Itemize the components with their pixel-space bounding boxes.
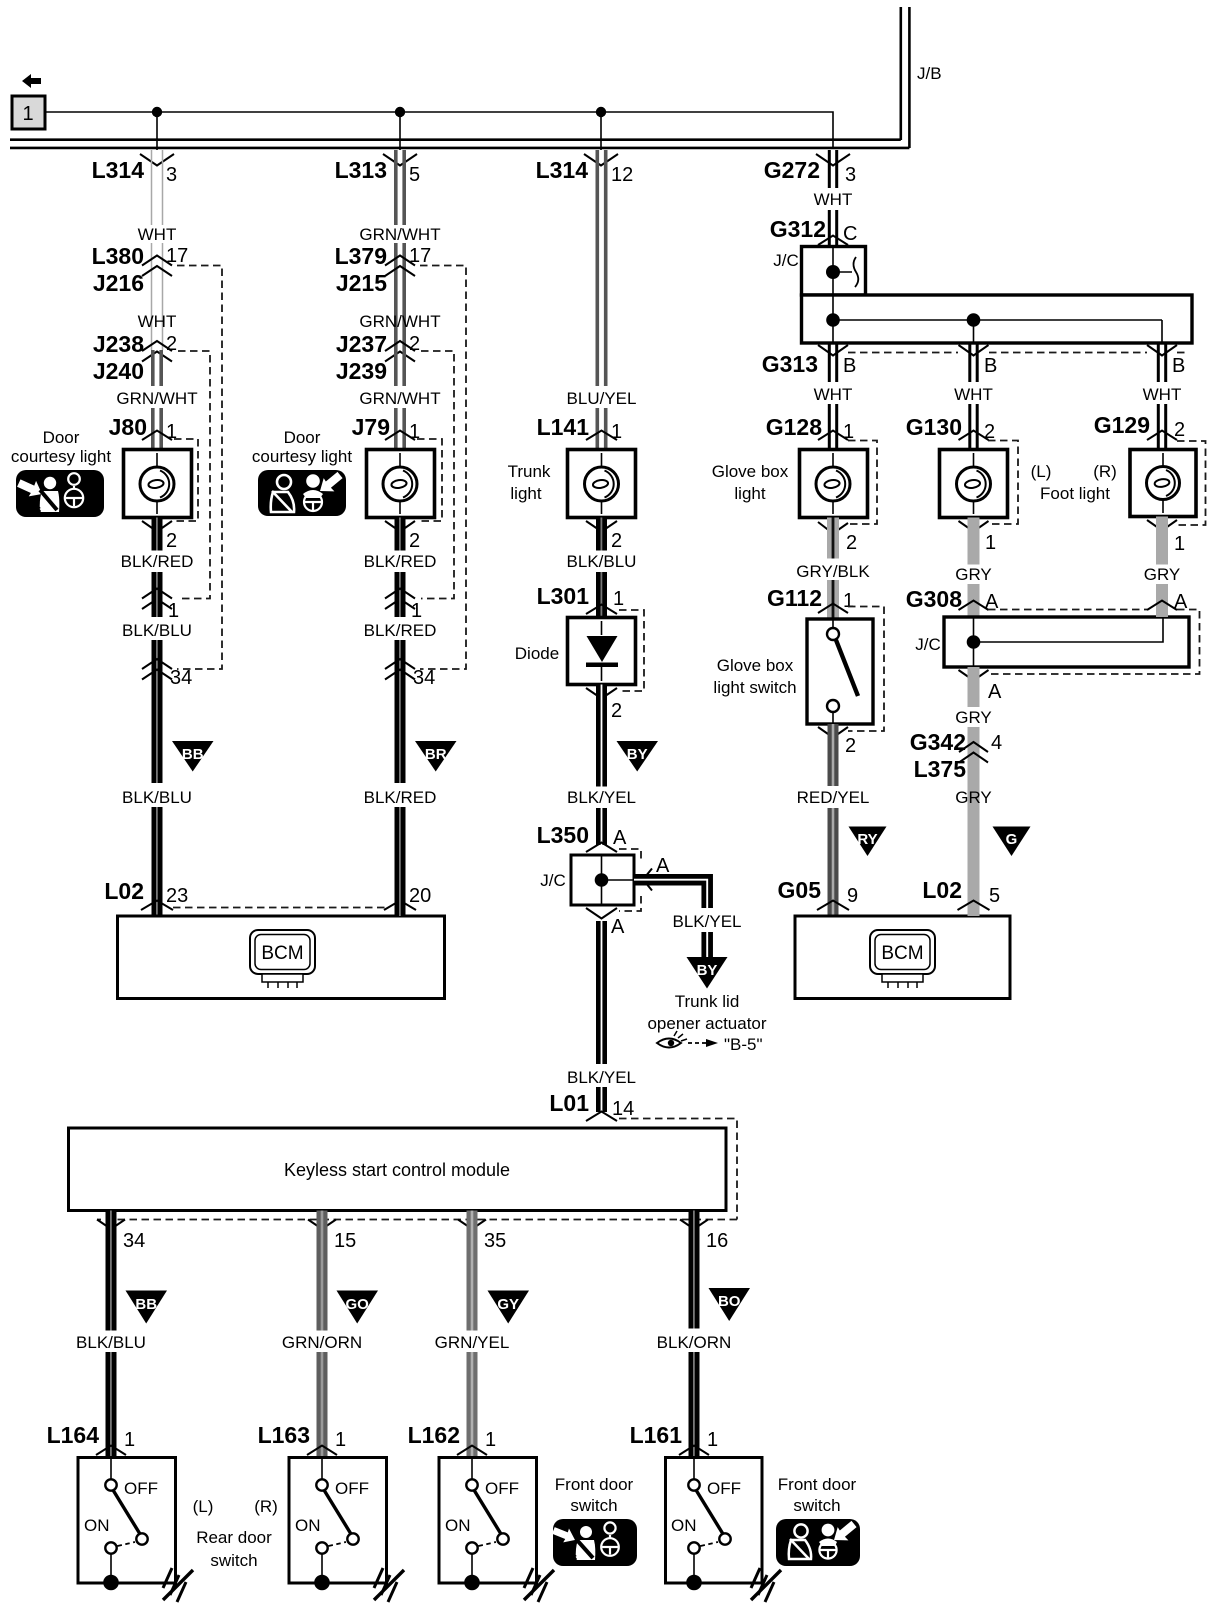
- wire GRY col5 upper: [968, 518, 980, 618]
- label (L) foot light: [1031, 462, 1052, 481]
- label Glove box light switch: [713, 656, 796, 697]
- wire dashed connector frame G313: [848, 352, 1186, 354]
- svg-text:WHT: WHT: [138, 225, 177, 244]
- wire dashed frame col1 mid J238-1: [178, 351, 210, 599]
- label WHT col6: [1143, 385, 1182, 404]
- wire BLK/ORN keyless pin16: [689, 1211, 700, 1458]
- connector G130 pin 2: [906, 414, 995, 443]
- wire GRY col5 mid: [968, 667, 980, 785]
- svg-text:2: 2: [166, 333, 177, 355]
- svg-text:G308: G308: [906, 586, 962, 612]
- wire BLK/BLU keyless pin34: [106, 1211, 117, 1458]
- svg-text:16: 16: [706, 1230, 728, 1252]
- connector pin 34 keyless module: [97, 1220, 145, 1253]
- destination triangle BY branch: [687, 957, 728, 989]
- wire WHT col4 lower: [829, 343, 836, 450]
- label GRY/BLK col4: [796, 562, 870, 581]
- svg-text:L02: L02: [922, 877, 962, 903]
- connector L141 pin 1: [537, 414, 623, 443]
- connector G272 pin 3: [764, 154, 856, 186]
- connector G342/L375 pin 4: [910, 729, 1002, 782]
- svg-text:L163: L163: [258, 1422, 310, 1448]
- svg-text:A: A: [611, 916, 625, 938]
- connector pin 16 keyless module: [680, 1220, 728, 1253]
- svg-text:ON: ON: [445, 1516, 471, 1535]
- wire WHT col1 upper: [152, 150, 163, 350]
- svg-text:GRN/WHT: GRN/WHT: [359, 225, 440, 244]
- wire dashed frame G112 pins: [848, 607, 884, 732]
- label front door switch driver: [778, 1475, 857, 1515]
- wire BLK/BLU col1 mid: [152, 595, 163, 783]
- diode L301: [568, 618, 636, 685]
- svg-text:Dr: Dr: [328, 502, 342, 516]
- svg-text:"B-5": "B-5": [724, 1035, 763, 1054]
- ground symbol L163: [374, 1568, 404, 1602]
- label BLK/RED col2 mid: [364, 552, 437, 571]
- connector G313 pin B col4: [762, 345, 857, 377]
- label Glove box light: [712, 462, 789, 503]
- svg-text:GY: GY: [497, 1296, 519, 1313]
- label BLK/RED col1: [121, 552, 194, 571]
- label GRN/WHT col1: [116, 389, 197, 408]
- label BLK/RED col2 lower: [364, 788, 437, 807]
- svg-text:5: 5: [989, 885, 1000, 907]
- box BCM left: [118, 916, 445, 999]
- svg-text:ON: ON: [671, 1516, 697, 1535]
- label WHT col4 row2: [814, 385, 853, 404]
- lamp L141 trunk light: [568, 450, 636, 518]
- svg-text:GRN/WHT: GRN/WHT: [116, 389, 197, 408]
- svg-text:BLK/YEL: BLK/YEL: [673, 912, 742, 931]
- wire BLK/RED col2 lower2: [395, 807, 406, 916]
- svg-text:light switch: light switch: [713, 678, 796, 697]
- svg-text:17: 17: [409, 245, 431, 267]
- svg-text:GRY: GRY: [955, 788, 992, 807]
- connector L380/J216 pin 17: [92, 243, 189, 296]
- connector L164 pin 1: [47, 1422, 136, 1455]
- connector L02 pin 5: [922, 877, 1000, 910]
- wire GRN/WHT col1: [153, 350, 161, 450]
- ground symbol L164: [163, 1568, 193, 1602]
- svg-text:J238: J238: [93, 331, 144, 357]
- svg-text:BLU/YEL: BLU/YEL: [567, 389, 637, 408]
- wire dashed frame G129 pins: [1177, 441, 1206, 525]
- svg-text:courtesy light: courtesy light: [252, 447, 352, 466]
- wire GRY col6: [1156, 517, 1168, 618]
- label GRN/WHT col2 row2: [359, 312, 440, 331]
- svg-text:WHT: WHT: [814, 190, 853, 209]
- svg-text:(L): (L): [1031, 462, 1052, 481]
- svg-text:L380: L380: [92, 243, 144, 269]
- wire dashed frame L301 pins: [619, 610, 644, 691]
- connector J238/J240 pin 2: [93, 331, 177, 384]
- connector L301 pin 2: [586, 688, 622, 722]
- destination triangle GY bottom: [488, 1291, 530, 1324]
- junction block G308 J/C: [944, 617, 1189, 667]
- connector L350 pin A branch: [643, 855, 670, 891]
- svg-text:G342: G342: [910, 729, 966, 755]
- svg-text:L01: L01: [549, 1090, 589, 1116]
- svg-text:2: 2: [409, 333, 420, 355]
- label rear door switch: [193, 1497, 278, 1570]
- svg-text:3: 3: [845, 164, 856, 186]
- svg-text:34: 34: [170, 667, 192, 689]
- lamp G130 left foot light: [940, 450, 1008, 518]
- svg-text:switch: switch: [210, 1551, 257, 1570]
- svg-text:C: C: [843, 223, 857, 245]
- svg-text:35: 35: [484, 1230, 506, 1252]
- svg-text:Foot light: Foot light: [1040, 484, 1110, 503]
- svg-text:4: 4: [991, 732, 1002, 754]
- wire GRY/BLK col4: [827, 518, 839, 621]
- box keyless start control module: [69, 1128, 727, 1211]
- connector G128 pin 2: [818, 522, 857, 554]
- connector J80 pin 1: [109, 414, 178, 443]
- connector inline pin 1 col1: [142, 589, 179, 623]
- svg-text:17: 17: [166, 245, 188, 267]
- svg-text:BB: BB: [182, 746, 204, 763]
- svg-text:G272: G272: [764, 157, 820, 183]
- svg-text:2: 2: [611, 530, 622, 552]
- svg-text:9: 9: [847, 885, 858, 907]
- connector inline pin 34 col2: [385, 659, 435, 689]
- connector J237/J239 pin 2: [336, 331, 420, 384]
- svg-text:light: light: [734, 484, 765, 503]
- svg-text:B: B: [1172, 355, 1185, 377]
- lamp J80 door courtesy light: [124, 450, 192, 518]
- label J/C G308: [915, 635, 941, 654]
- wire thin bus from connector 1: [45, 112, 833, 149]
- label BLK/BLU bottom: [76, 1333, 146, 1352]
- label J/C L350: [540, 871, 566, 890]
- label GRN/ORN bottom: [282, 1333, 362, 1352]
- svg-text:B: B: [984, 355, 997, 377]
- wire dashed frame col1 J80 pins: [174, 439, 198, 521]
- label GRY col6: [1144, 565, 1181, 584]
- svg-text:G130: G130: [906, 414, 962, 440]
- svg-text:15: 15: [334, 1230, 356, 1252]
- label BLK/YEL col3 upper: [567, 788, 636, 807]
- svg-text:GRY/BLK: GRY/BLK: [796, 562, 870, 581]
- svg-text:J79: J79: [352, 414, 390, 440]
- connector L350 pin A bottom: [586, 908, 625, 938]
- svg-text:L164: L164: [47, 1422, 100, 1448]
- label BLK/BLU col1 lower: [122, 788, 192, 807]
- svg-text:Door: Door: [43, 428, 80, 447]
- svg-text:1: 1: [124, 1429, 135, 1451]
- connector L313 pin 5: [335, 154, 421, 186]
- svg-text:J240: J240: [93, 358, 144, 384]
- svg-text:G: G: [1006, 831, 1018, 848]
- switch L163 right rear door switch: [289, 1457, 387, 1590]
- svg-text:14: 14: [612, 1098, 634, 1120]
- svg-text:L141: L141: [537, 414, 590, 440]
- label (R) foot light: [1093, 462, 1117, 481]
- svg-text:1: 1: [613, 588, 624, 610]
- wire BLK/BLU col3: [596, 518, 607, 618]
- label Trunk lid opener actuator: [647, 992, 766, 1033]
- svg-text:light: light: [510, 484, 541, 503]
- connector G313 pin B col6: [1147, 345, 1185, 377]
- wire BLK/RED col1: [152, 518, 163, 596]
- label BLK/BLU col3: [567, 552, 637, 571]
- svg-text:Pas: Pas: [556, 1550, 578, 1564]
- svg-text:BR: BR: [425, 746, 447, 763]
- box BCM right: [795, 916, 1010, 999]
- svg-text:G129: G129: [1094, 412, 1150, 438]
- connector G308 pin A col6: [1147, 591, 1188, 613]
- svg-text:L314: L314: [536, 157, 589, 183]
- wire dashed frame col2 outer L379-34: [420, 266, 466, 670]
- label WHT col5: [954, 385, 993, 404]
- label BLK/BLU col1 mid: [122, 621, 192, 640]
- icon eye with reference B-5: [657, 1031, 763, 1054]
- svg-text:GRN/YEL: GRN/YEL: [435, 1333, 510, 1352]
- svg-text:B: B: [843, 355, 856, 377]
- switch L162 passenger front door switch: [439, 1457, 537, 1590]
- connector L379/J215 pin 17: [335, 243, 432, 296]
- connector G05 pin 9: [778, 877, 859, 910]
- svg-text:OFF: OFF: [124, 1479, 158, 1498]
- svg-text:RED/YEL: RED/YEL: [797, 788, 870, 807]
- switch G112 glove box light switch: [807, 619, 873, 724]
- connector J80 pin 2: [142, 521, 177, 552]
- label WHT col1 row1: [138, 225, 177, 244]
- svg-text:J239: J239: [336, 358, 387, 384]
- wire dashed frame col1 outer L380-34: [177, 266, 222, 670]
- connector L314 pin 3: [92, 154, 178, 186]
- BCM right logo: [870, 930, 935, 988]
- svg-text:2: 2: [846, 532, 857, 554]
- svg-text:20: 20: [409, 885, 431, 907]
- destination triangle BB bottom: [126, 1291, 168, 1324]
- svg-text:BLK/BLU: BLK/BLU: [76, 1333, 146, 1352]
- connector L02 pin 23: [104, 878, 188, 910]
- wire dashed frame col2 J79 pins: [417, 439, 442, 521]
- wire GRN/WHT col2 upper: [396, 150, 404, 350]
- svg-text:WHT: WHT: [954, 385, 993, 404]
- label GRN/WHT col2 row1: [359, 225, 440, 244]
- svg-text:12: 12: [611, 164, 633, 186]
- label BLK/YEL branch: [673, 912, 742, 931]
- svg-text:2: 2: [166, 530, 177, 552]
- switch L164 left rear door switch: [78, 1457, 176, 1590]
- destination triangle BY col3: [617, 741, 659, 772]
- wire GRN/WHT col2 lower: [396, 350, 404, 450]
- wire dashed connector frame L02 left BCM: [173, 907, 388, 909]
- svg-text:BLK/YEL: BLK/YEL: [567, 1068, 636, 1087]
- connector inline pin 1 col2: [385, 589, 422, 623]
- svg-text:RY: RY: [857, 831, 877, 848]
- svg-text:ON: ON: [295, 1516, 321, 1535]
- svg-text:23: 23: [166, 885, 188, 907]
- connector L301 pin 1: [537, 583, 625, 614]
- svg-text:WHT: WHT: [814, 385, 853, 404]
- wire GRN/ORN keyless pin15: [317, 1211, 328, 1458]
- wire dashed frame L350 pins: [619, 849, 641, 911]
- connector L161 pin 1: [630, 1422, 719, 1455]
- svg-text:1: 1: [168, 600, 179, 622]
- svg-text:BCM: BCM: [261, 943, 303, 964]
- arrow to sheet 1: [22, 74, 41, 88]
- svg-text:A: A: [1174, 591, 1188, 613]
- svg-text:Keyless start control module: Keyless start control module: [284, 1160, 510, 1180]
- svg-text:1: 1: [611, 421, 622, 443]
- svg-text:1: 1: [335, 1429, 346, 1451]
- svg-text:2: 2: [1174, 419, 1185, 441]
- svg-text:BLK/BLU: BLK/BLU: [567, 552, 637, 571]
- connector pin 15 keyless module: [308, 1220, 356, 1253]
- svg-text:L162: L162: [408, 1422, 460, 1448]
- node junction dot L314-12 tap: [596, 107, 606, 150]
- off-page connector box 1: [12, 96, 45, 129]
- svg-text:A: A: [613, 827, 627, 849]
- svg-text:1: 1: [985, 532, 996, 554]
- connector G308 pin A col5: [906, 586, 999, 613]
- svg-text:L350: L350: [537, 822, 589, 848]
- svg-text:L375: L375: [914, 756, 967, 782]
- wire RED/YEL col4: [828, 724, 839, 916]
- node junction dot L313 tap: [395, 107, 405, 150]
- label J/B: [917, 64, 942, 83]
- svg-text:J215: J215: [336, 270, 387, 296]
- svg-text:L313: L313: [335, 157, 387, 183]
- destination triangle BO bottom: [709, 1288, 751, 1321]
- wire WHT col6: [1158, 343, 1165, 450]
- label BLU/YEL col3: [567, 389, 637, 408]
- svg-text:J/C: J/C: [915, 635, 941, 654]
- wire dashed frame keyless module connector: [97, 1119, 737, 1220]
- connector L141 pin 2: [586, 521, 622, 552]
- wire BLK/RED col2 mid: [395, 518, 406, 596]
- label Foot light: [1040, 484, 1110, 503]
- svg-text:Pas: Pas: [20, 502, 42, 516]
- label front door switch passenger: [555, 1475, 634, 1515]
- destination triangle BR col2: [415, 741, 457, 772]
- svg-text:3: 3: [166, 164, 177, 186]
- wire BLK/YEL branch to trunk lid actuator: [634, 880, 755, 957]
- label Trunk light: [508, 462, 551, 503]
- svg-text:BLK/ORN: BLK/ORN: [657, 1333, 732, 1352]
- svg-text:switch: switch: [570, 1496, 617, 1515]
- svg-text:L379: L379: [335, 243, 387, 269]
- svg-text:Rear door: Rear door: [196, 1528, 272, 1547]
- svg-text:WHT: WHT: [1143, 385, 1182, 404]
- svg-text:OFF: OFF: [335, 1479, 369, 1498]
- connector L02 pin 20: [384, 885, 431, 910]
- ground symbol L161: [751, 1568, 781, 1602]
- connector G128 pin 1: [766, 414, 854, 443]
- svg-text:1: 1: [843, 590, 854, 612]
- svg-text:J/C: J/C: [773, 251, 799, 270]
- label WHT col4 row1: [814, 190, 853, 209]
- connector pin 35 keyless module: [458, 1220, 506, 1253]
- label Diode: [515, 644, 559, 663]
- svg-text:BB: BB: [135, 1296, 157, 1313]
- wire GRN/YEL keyless pin35: [467, 1211, 478, 1458]
- svg-text:G112: G112: [767, 585, 822, 611]
- wire dashed frame G308 pins: [988, 610, 1200, 675]
- connector G112 pin 1: [767, 585, 854, 613]
- svg-text:WHT: WHT: [138, 312, 177, 331]
- label GRY col5 row3: [955, 788, 992, 807]
- svg-text:(R): (R): [1093, 462, 1117, 481]
- junction block L350 J/C: [571, 855, 634, 905]
- svg-text:ON: ON: [84, 1516, 110, 1535]
- svg-text:J237: J237: [336, 331, 387, 357]
- svg-text:Door: Door: [284, 428, 321, 447]
- svg-text:Front door: Front door: [778, 1475, 857, 1494]
- wire WHT col5: [970, 343, 977, 450]
- svg-text:GO: GO: [346, 1296, 370, 1313]
- svg-text:1: 1: [485, 1429, 496, 1451]
- svg-text:GRN/WHT: GRN/WHT: [359, 389, 440, 408]
- svg-text:Glove box: Glove box: [717, 656, 794, 675]
- connector L314 pin 12: [536, 154, 634, 186]
- label BLK/ORN bottom: [657, 1333, 732, 1352]
- wire BLK/BLU col1 lower: [152, 807, 163, 916]
- svg-text:courtesy light: courtesy light: [11, 447, 111, 466]
- svg-text:1: 1: [22, 103, 33, 125]
- svg-text:J/C: J/C: [540, 871, 566, 890]
- svg-text:G128: G128: [766, 414, 822, 440]
- svg-text:(R): (R): [254, 1497, 278, 1516]
- svg-text:Trunk lid: Trunk lid: [675, 992, 740, 1011]
- connector G112 pin 2: [818, 727, 856, 757]
- svg-text:OFF: OFF: [707, 1479, 741, 1498]
- svg-text:G313: G313: [762, 351, 818, 377]
- BCM left logo: [250, 930, 315, 988]
- label GRY col5 row2: [955, 708, 992, 727]
- lamp G129 right foot light: [1130, 450, 1196, 517]
- wire J/B double riser vertical: [901, 7, 910, 148]
- wire WHT col4 upper: [829, 150, 836, 246]
- wire BLK/YEL col3 lower: [596, 921, 607, 1112]
- svg-text:BO: BO: [718, 1293, 741, 1310]
- connector inline pin 34 col1: [142, 659, 192, 689]
- label GRN/YEL bottom: [435, 1333, 510, 1352]
- svg-text:BCM: BCM: [881, 943, 923, 964]
- wire dashed frame G128 pins: [848, 441, 877, 525]
- svg-text:BLK/RED: BLK/RED: [364, 621, 437, 640]
- connector G312 pin C: [770, 216, 858, 245]
- label WHT col1 row2: [138, 312, 177, 331]
- svg-text:1: 1: [707, 1429, 718, 1451]
- svg-text:Front door: Front door: [555, 1475, 634, 1494]
- svg-text:BLK/BLU: BLK/BLU: [122, 621, 192, 640]
- connector J79 pin 1: [352, 414, 421, 443]
- svg-text:Trunk: Trunk: [508, 462, 551, 481]
- connector J79 pin 2: [385, 521, 420, 552]
- wire BLK/YEL col3 upper: [596, 685, 607, 846]
- svg-text:1: 1: [411, 600, 422, 622]
- connector G313 pin B col5: [959, 345, 998, 377]
- svg-text:Glove box: Glove box: [712, 462, 789, 481]
- label Door courtesy light (passenger): [11, 428, 111, 466]
- svg-text:5: 5: [409, 164, 420, 186]
- svg-text:G05: G05: [778, 877, 822, 903]
- label Door courtesy light (driver): [252, 428, 352, 466]
- svg-text:(L): (L): [193, 1497, 214, 1516]
- destination triangle BB col1: [172, 741, 214, 772]
- svg-text:GRN/ORN: GRN/ORN: [282, 1333, 362, 1352]
- connector L163 pin 1: [258, 1422, 347, 1455]
- label RED/YEL col4: [797, 788, 870, 807]
- svg-text:OFF: OFF: [485, 1479, 519, 1498]
- wire J/B double bus horizontal: [10, 140, 909, 148]
- destination triangle GO bottom: [337, 1291, 379, 1324]
- svg-text:J/B: J/B: [917, 64, 942, 83]
